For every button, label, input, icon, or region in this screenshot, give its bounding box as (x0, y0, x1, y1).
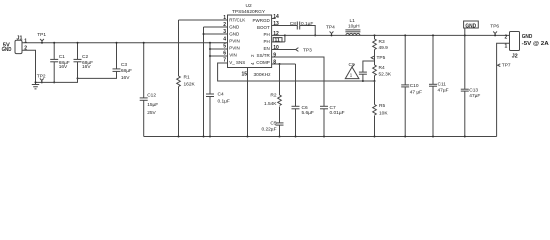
svg-text:J1: J1 (17, 35, 23, 41)
svg-text:L1: L1 (350, 18, 356, 24)
ground (32, 85, 39, 89)
svg-text:GND: GND (2, 47, 12, 53)
capacitor C2 (74, 42, 94, 80)
svg-text:52.3K: 52.3K (379, 71, 392, 77)
capacitor C8 (272, 21, 317, 37)
svg-text:68µF: 68µF (121, 68, 132, 74)
svg-text:PVIN: PVIN (229, 39, 240, 44)
capacitor C1 (50, 42, 70, 84)
svg-text:1: 1 (505, 44, 508, 50)
IC U2 TPS54620RGY (223, 3, 280, 77)
svg-text:12: 12 (273, 31, 279, 37)
svg-text:300KHz: 300KHz (254, 72, 272, 78)
svg-text:TP5: TP5 (377, 55, 386, 61)
wire SS/TR net (272, 57, 324, 106)
wire pin15 pad to ground (247, 68, 249, 137)
svg-text:1: 1 (24, 38, 27, 44)
svg-text:TPS54620RGY: TPS54620RGY (232, 9, 266, 15)
test point TP4 (326, 25, 335, 37)
capacitor C13 (461, 34, 481, 137)
svg-text:16V: 16V (82, 64, 91, 70)
svg-text:GND: GND (465, 23, 476, 29)
svg-text:PWRGD: PWRGD (253, 18, 271, 23)
wire GND bus pins 2,3 (203, 27, 228, 138)
svg-text:3: 3 (223, 29, 226, 35)
svg-text:15: 15 (242, 71, 248, 77)
capacitor C9 (349, 61, 375, 82)
wire J1 pin2 to ground (22, 50, 36, 84)
svg-text:TP2: TP2 (37, 74, 46, 80)
capacitor C4 (206, 91, 230, 137)
svg-text:GND: GND (229, 25, 240, 30)
svg-text:C10: C10 (410, 83, 419, 89)
svg-text:2: 2 (223, 22, 226, 28)
svg-text:J2: J2 (512, 53, 518, 59)
wire output rail (285, 34, 510, 36)
svg-text:14: 14 (273, 14, 279, 20)
svg-text:11: 11 (275, 37, 281, 43)
svg-text:C3: C3 (121, 62, 127, 68)
svg-text:C8: C8 (290, 21, 296, 27)
wire J2 pin1 to -5V rail (497, 43, 510, 136)
svg-text:10K: 10K (379, 111, 388, 117)
test point TP6 (490, 24, 499, 37)
svg-text:R5: R5 (379, 103, 385, 109)
svg-text:U2: U2 (246, 3, 252, 9)
svg-text:47µF: 47µF (438, 88, 449, 94)
svg-text:C11: C11 (438, 82, 447, 88)
svg-text:47µF: 47µF (469, 93, 480, 99)
node GND flag (464, 21, 479, 35)
svg-text:1.54K: 1.54K (264, 101, 277, 107)
svg-text:13: 13 (273, 21, 279, 27)
svg-text:162K: 162K (184, 82, 196, 88)
wire ground rail (144, 136, 497, 138)
svg-text:C4: C4 (218, 91, 224, 97)
svg-text:C2: C2 (82, 54, 88, 60)
capacitor C10 (401, 34, 422, 137)
svg-text:25V: 25V (147, 110, 156, 116)
svg-text:6: 6 (223, 51, 226, 57)
svg-text:5: 5 (223, 44, 226, 50)
svg-text:TP1: TP1 (37, 32, 46, 38)
svg-text:TP6: TP6 (490, 24, 499, 30)
wire EN to TP3 (272, 49, 296, 51)
wire RT/CLK net (179, 19, 228, 21)
svg-text:GND: GND (522, 34, 533, 40)
svg-text:5.6µF: 5.6µF (302, 110, 314, 116)
svg-text:0.1µF: 0.1µF (301, 21, 313, 27)
svg-text:49.9: 49.9 (379, 45, 389, 51)
capacitor C12 (140, 42, 159, 137)
svg-text:BOOT: BOOT (257, 25, 270, 30)
test point TP7 (497, 62, 511, 68)
svg-text:R1: R1 (184, 75, 190, 81)
wire V_SNS net (218, 63, 375, 81)
svg-text:PVIN: PVIN (229, 46, 240, 51)
svg-text:C5: C5 (270, 121, 276, 127)
svg-text:-5V @ 2A: -5V @ 2A (522, 41, 549, 47)
svg-text:C13: C13 (469, 87, 478, 93)
svg-text:PH: PH (264, 32, 270, 37)
capacitor C5 (261, 121, 283, 138)
svg-text:SS/TR: SS/TR (257, 53, 271, 58)
svg-text:47 µF: 47 µF (410, 89, 422, 95)
wire COMP net (272, 63, 296, 65)
resistor R4 (373, 65, 392, 82)
svg-text:TP4: TP4 (326, 25, 335, 31)
svg-text:16V: 16V (121, 75, 130, 81)
svg-text:R3: R3 (379, 39, 385, 45)
svg-text:R2: R2 (270, 92, 276, 98)
svg-text:15µF: 15µF (147, 102, 158, 108)
test point TP5 (371, 55, 385, 61)
svg-text:9: 9 (273, 53, 276, 59)
test point TP1 (37, 32, 46, 44)
svg-text:0.01µF: 0.01µF (330, 110, 345, 116)
inductor L1 (345, 18, 360, 36)
resistor R5 (373, 81, 389, 138)
connector J1 (2, 35, 28, 53)
svg-text:R4: R4 (379, 65, 385, 71)
test point TP3 (296, 48, 312, 54)
test point TP2 (37, 74, 46, 84)
svg-text:COMP: COMP (256, 60, 270, 65)
svg-text:10: 10 (273, 45, 279, 51)
wire input rail (22, 42, 228, 44)
capacitor C7 (320, 105, 345, 138)
svg-text:4: 4 (223, 37, 226, 43)
capacitor C3 (113, 42, 132, 81)
svg-text:V_ SNS: V_ SNS (229, 60, 245, 65)
svg-text:TP3: TP3 (303, 48, 312, 54)
svg-text:C12: C12 (147, 93, 156, 99)
svg-text:RT/CLK: RT/CLK (229, 18, 245, 23)
svg-text:0.22µF: 0.22µF (261, 126, 276, 132)
resistor R2 (264, 64, 281, 123)
svg-text:C1: C1 (59, 54, 65, 60)
wire PH pins 12,11 loop (272, 34, 286, 42)
svg-text:VIN: VIN (229, 53, 237, 58)
capacitor C6 (292, 105, 314, 138)
svg-text:10µH: 10µH (348, 23, 360, 29)
wire PWRGD stub pin14 (272, 18, 276, 20)
svg-text:2: 2 (505, 34, 508, 40)
svg-text:16V: 16V (59, 64, 68, 70)
wire input ground link (36, 71, 117, 82)
triangle marker near C9 (pin 1) (345, 64, 359, 78)
resistor R1 (177, 20, 196, 138)
capacitor C11 (429, 34, 449, 137)
svg-text:0.1µF: 0.1µF (218, 98, 230, 104)
svg-text:EN: EN (264, 46, 270, 51)
svg-text:GND: GND (229, 32, 240, 37)
wire PVIN bus pins 4,5,6 (209, 42, 228, 94)
connector J2 (505, 32, 549, 60)
resistor R3 (373, 34, 388, 65)
svg-text:PH: PH (264, 39, 270, 44)
svg-text:TP7: TP7 (502, 62, 511, 68)
svg-text:1: 1 (223, 15, 226, 21)
svg-text:8: 8 (273, 60, 276, 66)
